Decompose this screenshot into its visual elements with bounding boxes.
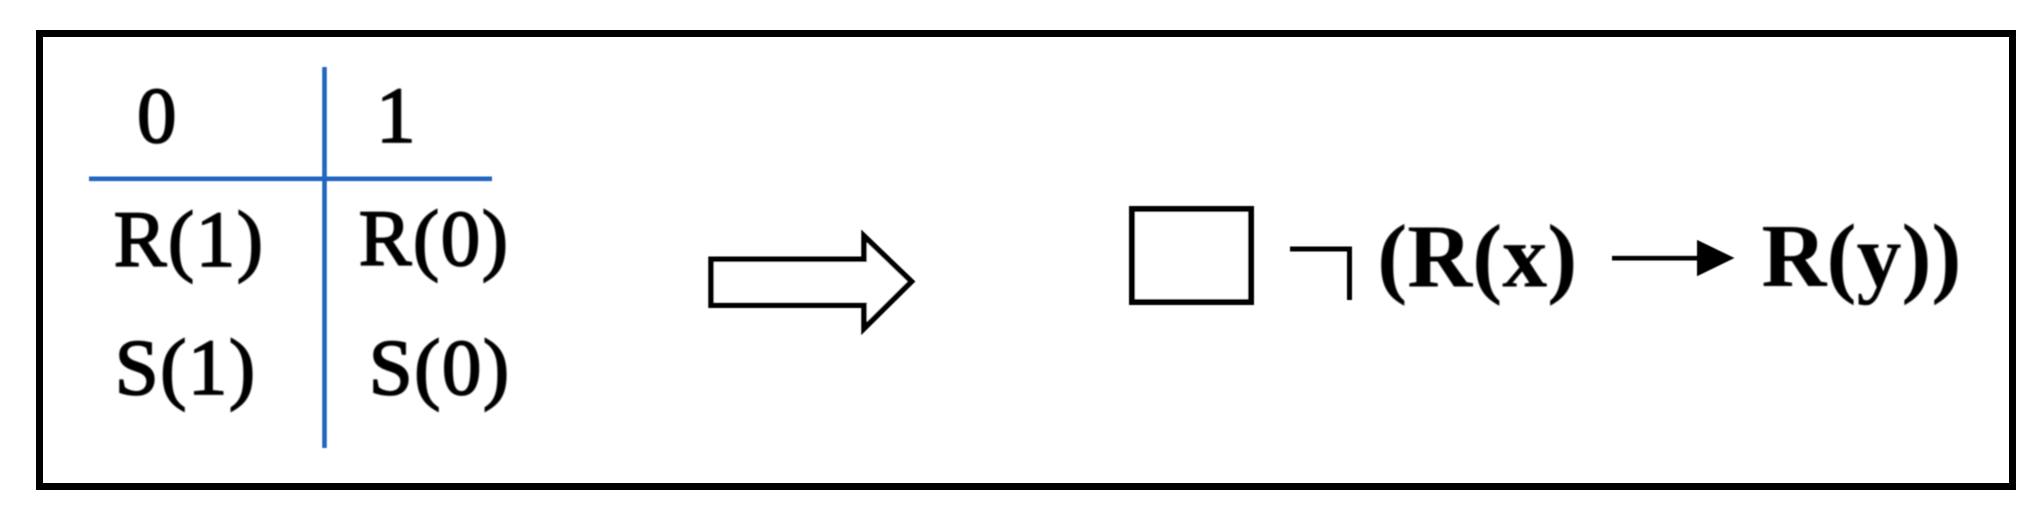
svg-text:R(1): R(1) <box>114 197 265 284</box>
svg-text:R(0): R(0) <box>359 196 510 283</box>
blue vertical table line <box>322 67 327 448</box>
box modal operator <box>1132 209 1251 302</box>
svg-text:0: 0 <box>137 73 177 160</box>
block arrow <box>711 236 912 329</box>
implication arrow head <box>1697 240 1735 276</box>
svg-text:(R(x): (R(x) <box>1377 208 1577 307</box>
svg-text:1: 1 <box>376 73 416 160</box>
implication arrow shaft <box>1612 256 1700 261</box>
svg-text:R(y)): R(y)) <box>1762 207 1962 306</box>
svg-text:S(0): S(0) <box>369 325 511 412</box>
svg-text:S(1): S(1) <box>115 325 257 412</box>
negation sign <box>1290 249 1350 300</box>
blue horizontal table line <box>89 177 492 182</box>
